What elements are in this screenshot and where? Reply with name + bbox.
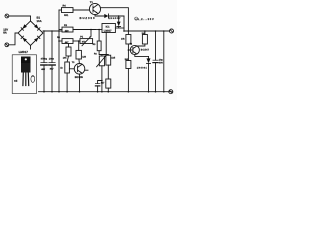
svg-text:0R1: 0R1: [64, 14, 69, 17]
input terminal J2: [5, 43, 9, 47]
wire: [30, 46, 32, 50]
T3 emitter mark: [85, 69, 88, 71]
resistor R3: [66, 44, 71, 63]
svg-text:IC1: IC1: [106, 25, 111, 28]
svg-text:10µ: 10µ: [159, 59, 164, 62]
resistor R6: [76, 40, 81, 63]
output terminal -: [169, 90, 173, 94]
wire T2 emitter: [135, 55, 149, 57]
svg-text:+1,2...30V: +1,2...30V: [135, 18, 154, 21]
IC1 LM317: [96, 24, 125, 55]
node: [58, 30, 60, 32]
resistor R11: [106, 79, 111, 92]
resistor R4: [59, 8, 89, 13]
package bottom view: [31, 76, 35, 83]
node: [58, 40, 60, 42]
resistor R8: [142, 31, 147, 44]
capacitor C3: [95, 80, 102, 93]
input terminal J1: [5, 14, 9, 18]
resistor R3a: [97, 29, 106, 55]
svg-text:100n: 100n: [49, 58, 55, 61]
diode D2: [117, 16, 121, 28]
svg-text:40V: 40V: [50, 68, 54, 71]
svg-text:BD135: BD135: [75, 76, 84, 79]
capacitor C2: [49, 31, 55, 92]
node: [118, 15, 120, 17]
transistor T3: [74, 64, 85, 92]
wire + rail: [43, 30, 62, 32]
wire bottom rail: [39, 91, 173, 93]
wire top: [100, 8, 128, 31]
wire: [9, 33, 18, 45]
node: [51, 30, 53, 32]
wire emitter: [95, 15, 104, 16]
node: [43, 30, 45, 32]
svg-text:LM317: LM317: [104, 29, 112, 32]
zener diode D3: [147, 56, 151, 91]
wire T3 base: [69, 68, 74, 70]
svg-text:BUZ350: BUZ350: [80, 16, 95, 20]
wire: [123, 16, 125, 31]
wire T2 collector: [137, 44, 145, 46]
bridge rectifier B1: [18, 21, 43, 46]
output label plus circle: [135, 17, 138, 20]
wire + rail right: [124, 30, 169, 32]
transistor T1: [89, 3, 100, 14]
svg-text:1N4001: 1N4001: [137, 67, 148, 70]
capacitor C1: [41, 31, 47, 92]
rail nodes: [43, 91, 45, 93]
resistor R9: [126, 61, 131, 92]
wire bus: [58, 10, 60, 92]
inset box LM317 package: [12, 55, 36, 94]
wire: [163, 31, 165, 92]
svg-text:8A: 8A: [3, 31, 7, 35]
svg-text:10A: 10A: [37, 19, 42, 23]
labels: [3, 1, 163, 84]
svg-text:LM317: LM317: [19, 50, 29, 54]
capacitor C4: [153, 31, 158, 92]
svg-text:40V: 40V: [41, 68, 45, 71]
svg-text:1N4007: 1N4007: [109, 17, 122, 20]
resistor R10: [106, 55, 111, 80]
resistor R1: [59, 27, 96, 32]
resistor R2: [59, 39, 80, 44]
diode D1: [104, 14, 108, 18]
svg-text:40V: 40V: [159, 61, 164, 64]
svg-text:adj: adj: [14, 79, 18, 82]
potentiometer P2: [97, 55, 107, 92]
transistor T2: [128, 45, 140, 54]
wire: [30, 16, 32, 21]
TO-220 package: [21, 57, 31, 86]
svg-text:4700µ: 4700µ: [41, 58, 48, 61]
potentiometer P1: [80, 29, 93, 46]
svg-text:BC547: BC547: [141, 49, 150, 52]
output terminal +: [170, 29, 174, 33]
resistor R7: [126, 31, 131, 61]
resistor R5: [65, 62, 70, 92]
wire: [9, 15, 31, 17]
